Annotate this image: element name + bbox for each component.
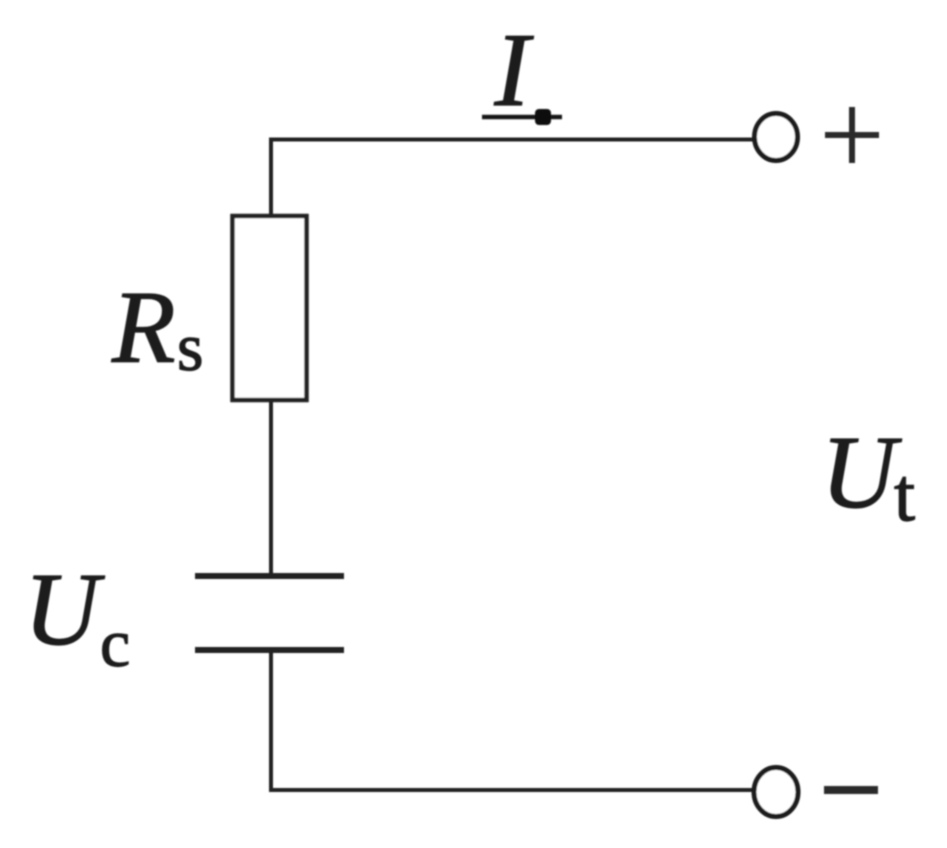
wire bottom horizontal bbox=[269, 788, 753, 792]
capacitor Uc top plate bbox=[195, 573, 344, 579]
wire vertical top (corner to resistor) bbox=[269, 138, 273, 216]
svg-text:t: t bbox=[894, 454, 915, 538]
resistor Rs bbox=[233, 216, 307, 400]
wire top horizontal bbox=[269, 138, 754, 142]
wire vertical middle (resistor to capacitor) bbox=[269, 400, 273, 578]
svg-text:c: c bbox=[100, 605, 130, 681]
svg-text:R: R bbox=[111, 270, 176, 385]
capacitor Uc bottom plate bbox=[195, 647, 344, 653]
plus sign bbox=[825, 132, 879, 138]
svg-text:U: U bbox=[821, 415, 902, 530]
wire vertical bottom (capacitor to bottom wire) bbox=[269, 650, 273, 792]
terminal top circle bbox=[755, 114, 798, 161]
svg-text:U: U bbox=[24, 552, 105, 667]
current arrow dot bbox=[535, 109, 551, 125]
svg-text:I: I bbox=[494, 11, 535, 128]
svg-text:s: s bbox=[177, 309, 203, 385]
minus sign bbox=[824, 786, 878, 794]
current arrow line I bbox=[482, 115, 562, 120]
terminal bottom circle bbox=[754, 768, 798, 817]
